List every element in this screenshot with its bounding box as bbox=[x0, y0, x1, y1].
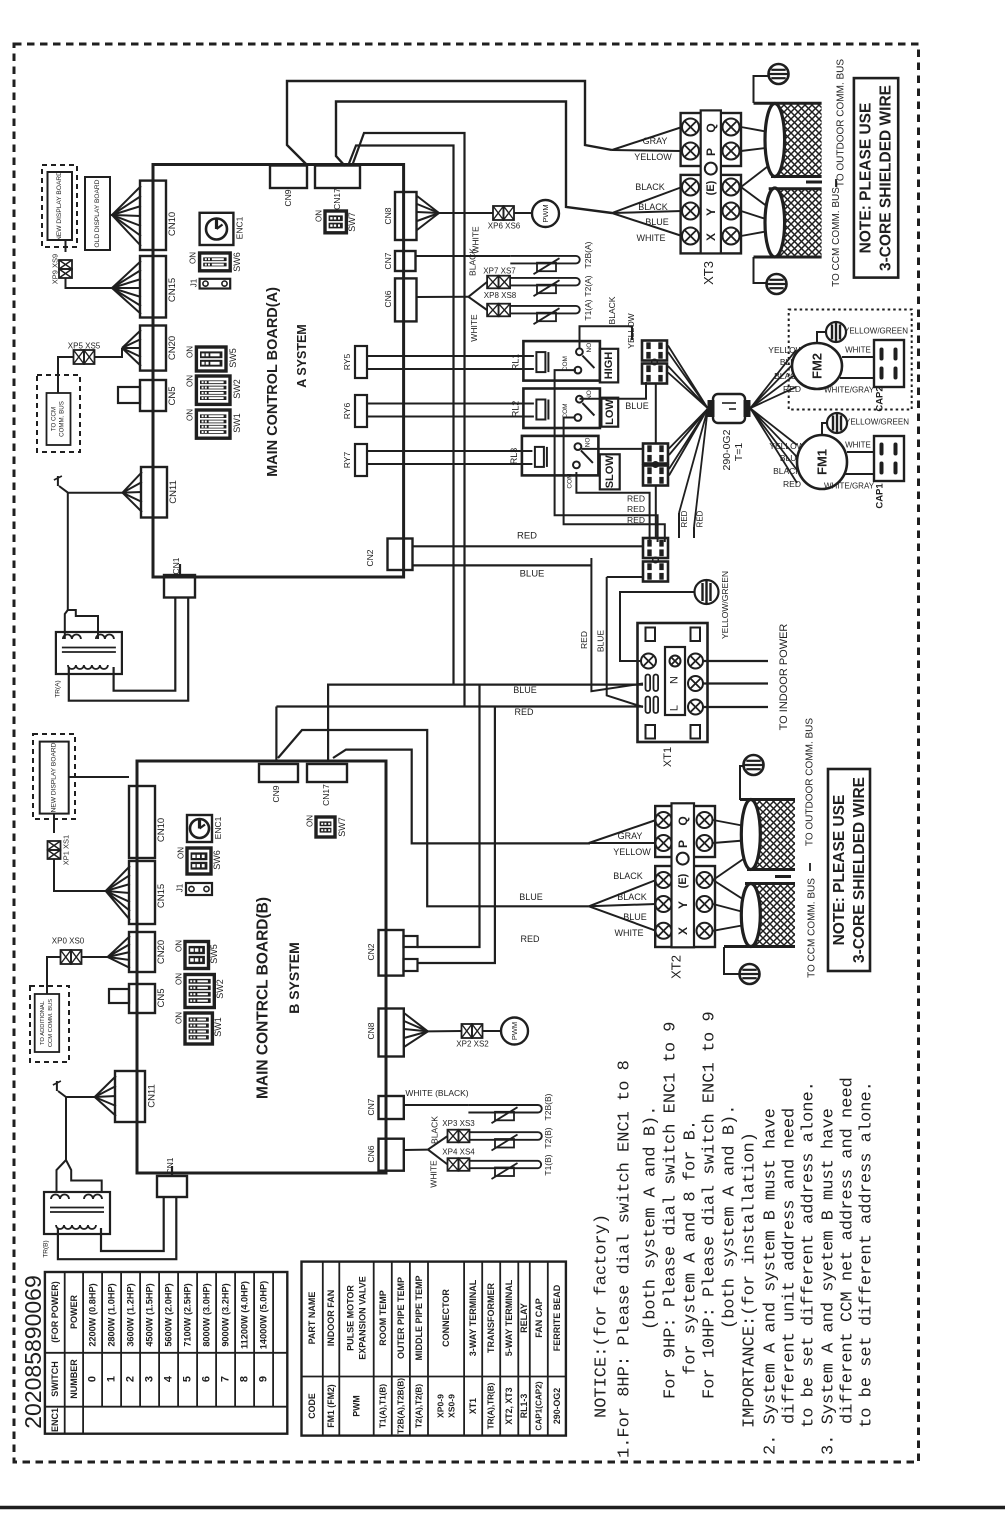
svg-text:MAIN CONTROL BOARD(A): MAIN CONTROL BOARD(A) bbox=[265, 287, 281, 477]
svg-text:4500W (1.5HP): 4500W (1.5HP) bbox=[145, 1283, 155, 1346]
svg-text:0: 0 bbox=[87, 1376, 99, 1382]
svg-text:RY6: RY6 bbox=[342, 403, 352, 420]
svg-text:ENC1: ENC1 bbox=[213, 816, 223, 839]
svg-text:COM: COM bbox=[562, 356, 569, 371]
svg-text:X: X bbox=[704, 233, 718, 241]
svg-text:POWER: POWER bbox=[69, 1295, 79, 1330]
svg-text:SW5: SW5 bbox=[228, 348, 238, 368]
connector pair P1 (fan speed) bbox=[642, 341, 667, 361]
svg-text:For 10HP: Please dial switch E: For 10HP: Please dial switch ENC1 to 9 bbox=[701, 1011, 720, 1399]
svg-text:290-OG2: 290-OG2 bbox=[552, 1388, 562, 1424]
svg-text:BLUE: BLUE bbox=[513, 685, 537, 695]
svg-text:XT2, XT3: XT2, XT3 bbox=[504, 1387, 514, 1424]
wire XP6 to PWM bbox=[514, 212, 532, 214]
wires RY6 to RL2 coil bbox=[367, 403, 534, 405]
XT' small center screw bbox=[670, 656, 681, 667]
fan motor FM1 bbox=[797, 435, 847, 489]
svg-text:CN17: CN17 bbox=[321, 784, 331, 806]
svg-text:T2(A),T2(B): T2(A),T2(B) bbox=[414, 1384, 423, 1428]
svg-text:8000W (3.0HP): 8000W (3.0HP) bbox=[202, 1283, 212, 1346]
earth FM2 yellow/green bbox=[817, 332, 826, 344]
PWM motor (A) bbox=[532, 200, 559, 227]
XT' center column bbox=[665, 647, 685, 715]
ground lower (XT3) bbox=[754, 257, 768, 283]
XT2 terminals bbox=[656, 812, 672, 828]
svg-text:NOTE: PLEASE USE: NOTE: PLEASE USE bbox=[831, 795, 848, 946]
CN15 fan bbox=[112, 261, 141, 288]
svg-text:WHITE/GRAY: WHITE/GRAY bbox=[824, 386, 875, 395]
connector CN6 (A) bbox=[395, 278, 417, 321]
svg-text:TO CCM: TO CCM bbox=[51, 407, 58, 431]
svg-text:MIDDLE PIPE TEMP: MIDDLE PIPE TEMP bbox=[414, 1275, 424, 1360]
XT' fuse slots bbox=[646, 675, 651, 692]
svg-text:BLACK: BLACK bbox=[607, 296, 617, 324]
svg-text:YELLOW: YELLOW bbox=[634, 152, 672, 162]
cable separator mark bbox=[806, 181, 822, 184]
ground upper (XT3) bbox=[754, 76, 770, 103]
svg-text:NOTE: PLEASE USE: NOTE: PLEASE USE bbox=[858, 103, 875, 254]
svg-text:COMM. BUS: COMM. BUS bbox=[59, 401, 66, 437]
svg-text:CN2: CN2 bbox=[366, 943, 376, 960]
DIP switch SW7 (B) bbox=[316, 817, 335, 837]
connector CN7 (A) bbox=[395, 251, 416, 271]
XT2 cable ellipse upper bbox=[741, 800, 760, 870]
svg-text:CN15: CN15 bbox=[156, 884, 167, 908]
XT2 cable ellipse lower bbox=[741, 884, 760, 947]
connector CN20 (B) bbox=[129, 932, 155, 972]
DIP switch SW6 (B) bbox=[187, 848, 211, 874]
main control board A outline bbox=[153, 165, 404, 578]
wire RL2 NO to P1 lower bbox=[580, 382, 647, 399]
svg-text:ON: ON bbox=[315, 210, 324, 222]
wire red down to XT' N bbox=[591, 558, 643, 691]
svg-text:YELLOW/GREEN: YELLOW/GREEN bbox=[845, 418, 909, 427]
main control board B outline bbox=[137, 761, 386, 1173]
T2(A) probe bbox=[510, 278, 580, 286]
svg-text:to be set different address al: to be set different address alone. bbox=[858, 1081, 877, 1428]
svg-text:TRANSFORMER: TRANSFORMER bbox=[486, 1283, 496, 1353]
svg-text:SW1: SW1 bbox=[213, 1017, 223, 1037]
ferrite right bundle to FM1 bbox=[751, 409, 798, 446]
svg-text:NEW DISPLAY BOARD: NEW DISPLAY BOARD bbox=[51, 742, 58, 812]
CN6A fork to XP7/XP8 bbox=[417, 296, 469, 298]
XT3 lower strip bbox=[681, 175, 741, 254]
svg-text:T2B(A): T2B(A) bbox=[583, 241, 593, 268]
svg-text:J1: J1 bbox=[176, 883, 185, 892]
ferrite bead 290-0G2 bbox=[713, 394, 745, 423]
svg-text:7: 7 bbox=[220, 1376, 232, 1382]
shielded cable hatch lower bbox=[775, 189, 822, 257]
CN15B fan bbox=[106, 866, 130, 891]
speed label HIGH bbox=[600, 349, 618, 383]
svg-text:SW2: SW2 bbox=[232, 379, 242, 399]
svg-text:3600W (1.2HP): 3600W (1.2HP) bbox=[126, 1283, 136, 1346]
XT2 cable separator bbox=[775, 875, 791, 878]
XT2 shielded cable hatch lower bbox=[751, 884, 795, 947]
svg-text:P: P bbox=[676, 840, 690, 848]
svg-text:290-0G2: 290-0G2 bbox=[721, 429, 733, 470]
svg-text:WHITE (BLACK): WHITE (BLACK) bbox=[405, 1088, 468, 1098]
svg-text:ON: ON bbox=[186, 409, 195, 421]
svg-text:XT1: XT1 bbox=[468, 1398, 478, 1414]
svg-text:SW7: SW7 bbox=[347, 212, 357, 232]
connector CN8 (B) bbox=[379, 1009, 404, 1057]
svg-text:Q: Q bbox=[704, 123, 718, 132]
svg-text:SW2: SW2 bbox=[215, 979, 225, 999]
connector CN9 (A) bbox=[270, 166, 307, 189]
DIP switch SW1 (B) bbox=[185, 1013, 212, 1044]
XT2 right wires bbox=[713, 820, 750, 827]
svg-text:CAP1: CAP1 bbox=[875, 483, 886, 509]
new display board dashed (B) bbox=[33, 734, 75, 819]
wire B CN9 diag to XT2 lower apex bbox=[278, 730, 589, 906]
svg-text:CN11: CN11 bbox=[147, 1084, 158, 1108]
red verticals P3 to ferrite bbox=[678, 513, 680, 538]
svg-text:MAIN CONTRCL BOARD(B): MAIN CONTRCL BOARD(B) bbox=[255, 897, 272, 1099]
rotary encoder ENC1 (A) bbox=[200, 213, 234, 245]
svg-text:SW1: SW1 bbox=[232, 413, 242, 433]
XT' mounting holes bbox=[646, 628, 656, 642]
svg-text:RED: RED bbox=[783, 384, 801, 394]
wire CN2B tab2 up to XT' L bbox=[417, 707, 495, 963]
svg-text:ON: ON bbox=[175, 973, 184, 985]
DIP switch SW5 (B) bbox=[185, 942, 209, 969]
svg-text:CN15: CN15 bbox=[167, 278, 178, 302]
TR(A) secondary wires to CN1A bbox=[114, 598, 176, 691]
svg-text:J1: J1 bbox=[190, 278, 199, 287]
svg-text:RED: RED bbox=[579, 631, 589, 649]
svg-text:BLUE: BLUE bbox=[519, 892, 543, 902]
connector CN10 (B) bbox=[129, 786, 155, 858]
svg-text:RED: RED bbox=[783, 479, 801, 489]
CN20 fan bbox=[122, 330, 141, 348]
svg-text:CN9: CN9 bbox=[271, 785, 281, 802]
svg-text:SW5: SW5 bbox=[209, 944, 219, 964]
svg-text:SW7: SW7 bbox=[337, 817, 347, 837]
CN1B stub bbox=[171, 1166, 173, 1176]
svg-text:(both system A and B).: (both system A and B). bbox=[721, 1105, 740, 1329]
svg-text:X: X bbox=[676, 927, 690, 935]
transformer TR(A) bbox=[56, 632, 122, 674]
dotted box FM2/CAP2 bbox=[789, 310, 912, 410]
svg-text:COM: COM bbox=[567, 473, 574, 488]
svg-text:XP1 XS1: XP1 XS1 bbox=[62, 835, 71, 865]
svg-text:XP7 XS7: XP7 XS7 bbox=[483, 267, 516, 276]
svg-text:BLACK: BLACK bbox=[430, 1116, 440, 1144]
svg-text:OLD DISPLAY BOARD: OLD DISPLAY BOARD bbox=[94, 179, 101, 247]
svg-text:HIGH: HIGH bbox=[603, 352, 615, 380]
svg-text:XS0-9: XS0-9 bbox=[447, 1394, 457, 1418]
svg-text:WHITE: WHITE bbox=[845, 346, 871, 355]
XT3 ring bbox=[705, 163, 717, 175]
svg-text:T2(A): T2(A) bbox=[583, 275, 593, 296]
svg-text:FM2: FM2 bbox=[810, 353, 825, 379]
svg-text:CONNECTOR: CONNECTOR bbox=[441, 1289, 451, 1347]
svg-text:6: 6 bbox=[201, 1376, 213, 1382]
svg-text:3-CORE SHIELDED WIRE: 3-CORE SHIELDED WIRE bbox=[851, 777, 868, 963]
svg-text:RED: RED bbox=[680, 510, 689, 527]
speed label LOW bbox=[601, 398, 618, 427]
svg-text:ON: ON bbox=[186, 375, 195, 387]
svg-text:CN8: CN8 bbox=[383, 207, 393, 224]
svg-text:CN20: CN20 bbox=[156, 940, 167, 964]
XT2 shielded cable hatch upper bbox=[751, 800, 795, 870]
XT2 ground lower bbox=[724, 947, 740, 974]
svg-text:different unit address and nee: different unit address and need bbox=[781, 1108, 800, 1424]
svg-text:ENC1: ENC1 bbox=[235, 216, 245, 239]
TR(B) primary wires bbox=[58, 1091, 95, 1097]
svg-text:(both system A and B).: (both system A and B). bbox=[642, 1106, 661, 1330]
XT2 ground upper bbox=[740, 766, 744, 800]
svg-text:T2B(B): T2B(B) bbox=[543, 1093, 553, 1120]
svg-text:COM: COM bbox=[562, 403, 569, 418]
svg-text:NEW DISPLAY BOARD: NEW DISPLAY BOARD bbox=[56, 171, 63, 241]
svg-text:T=1: T=1 bbox=[733, 443, 745, 462]
CN11B fan bbox=[95, 1076, 116, 1097]
bottom page rule bbox=[0, 1506, 1005, 1509]
svg-text:XP2 XS2: XP2 XS2 bbox=[456, 1040, 489, 1049]
svg-text:7100W (2.5HP): 7100W (2.5HP) bbox=[183, 1283, 193, 1346]
svg-text:CAP1(CAP2): CAP1(CAP2) bbox=[534, 1381, 543, 1430]
wire P2 to P3 bbox=[655, 486, 657, 538]
svg-text:BLACK: BLACK bbox=[617, 892, 647, 902]
svg-text:(E): (E) bbox=[705, 180, 717, 195]
svg-text:TO CCM COMM. BUS: TO CCM COMM. BUS bbox=[831, 187, 842, 287]
wires RY7 to RL3 coil bbox=[367, 450, 532, 452]
relay COM bus wires to P3 (red) bbox=[555, 370, 658, 542]
svg-text:2200W (0.8HP): 2200W (0.8HP) bbox=[88, 1283, 98, 1346]
svg-text:WHITE: WHITE bbox=[637, 233, 666, 243]
connector CN2 (A) bbox=[388, 539, 413, 571]
jumper J1 (B) bbox=[186, 883, 212, 895]
svg-text:CN7: CN7 bbox=[366, 1098, 376, 1115]
DIP switch SW5 (A) bbox=[196, 347, 226, 371]
earth above XT' yellow/green bbox=[620, 592, 695, 661]
svg-text:BLACK: BLACK bbox=[613, 871, 643, 881]
svg-text:CN10: CN10 bbox=[167, 212, 178, 236]
svg-text:CN9: CN9 bbox=[283, 189, 293, 206]
to additional ccm dashed (B) bbox=[30, 986, 69, 1062]
connector CN5 (A) bbox=[140, 380, 166, 411]
XT2 upper strip bbox=[655, 806, 715, 857]
svg-text:Q: Q bbox=[676, 816, 690, 825]
wire CN7B to T2B(B) bbox=[404, 1104, 468, 1106]
svg-text:SLOW: SLOW bbox=[604, 455, 616, 489]
svg-text:2800W (1.0HP): 2800W (1.0HP) bbox=[107, 1283, 117, 1346]
svg-text:TR(A): TR(A) bbox=[54, 680, 61, 697]
svg-text:NOTICE:(for factory): NOTICE:(for factory) bbox=[593, 1214, 612, 1418]
svg-text:RED: RED bbox=[520, 934, 540, 944]
XT3 left wire bundle upper bbox=[612, 127, 682, 150]
wire CN17A down-wire 1 (joins XT' L feed) bbox=[352, 133, 465, 707]
svg-text:Y: Y bbox=[676, 901, 690, 909]
relay RY6 on board bbox=[355, 395, 367, 427]
earth FM1 yellow/green bbox=[822, 423, 827, 435]
svg-text:EXPANSION VALVE: EXPANSION VALVE bbox=[358, 1276, 368, 1360]
connector CN15 (A) bbox=[140, 256, 166, 318]
relay RL3 bbox=[522, 436, 599, 476]
connector CN17 (A) bbox=[315, 166, 360, 189]
XT' right wires to indoor power bbox=[703, 660, 768, 662]
svg-text:PWM: PWM bbox=[510, 1022, 519, 1040]
svg-text:5-WAY TERMINAL: 5-WAY TERMINAL bbox=[504, 1279, 514, 1356]
wire CN2B tab1 up to XT' N bbox=[417, 685, 480, 947]
svg-text:PWM: PWM bbox=[541, 204, 550, 222]
svg-text:For 9HP: Please dial switch EN: For 9HP: Please dial switch ENC1 to 9 bbox=[662, 1022, 681, 1399]
svg-text:N: N bbox=[669, 676, 681, 684]
svg-text:CN2: CN2 bbox=[365, 549, 375, 566]
connector CN8 (A) bbox=[395, 192, 417, 240]
svg-text:5600W (2.0HP): 5600W (2.0HP) bbox=[164, 1283, 174, 1346]
wire CN2A red bbox=[413, 545, 644, 547]
wire CN17A to XT3 lower bundle bbox=[336, 102, 612, 214]
connector CN5 (B) bbox=[129, 984, 155, 1013]
relay RL2 bbox=[523, 389, 600, 429]
connector pair P3 bbox=[643, 538, 668, 558]
note box 1 bbox=[854, 78, 898, 278]
svg-text:Y: Y bbox=[704, 208, 718, 216]
svg-text:202085890069: 202085890069 bbox=[20, 1275, 46, 1429]
DIP switch SW1 (A) bbox=[196, 410, 230, 438]
svg-text:RELAY: RELAY bbox=[519, 1303, 529, 1333]
svg-text:TO INDOOR POWER: TO INDOOR POWER bbox=[778, 624, 790, 731]
XT2 lower strip bbox=[655, 866, 715, 947]
svg-text:for system A and 8 for B.: for system A and 8 for B. bbox=[682, 1120, 701, 1375]
note box 2 bbox=[828, 769, 870, 971]
svg-text:OUTER PIPE TEMP: OUTER PIPE TEMP bbox=[396, 1277, 406, 1359]
svg-text:ON: ON bbox=[189, 252, 198, 264]
wire XP5 to CN20 fan bbox=[58, 357, 74, 393]
connector pair P2 bbox=[643, 444, 668, 464]
svg-text:CODE: CODE bbox=[307, 1393, 317, 1419]
DIP switch SW7 (A) bbox=[325, 211, 346, 233]
transformer TR(B) bbox=[44, 1192, 110, 1234]
svg-text:XT3: XT3 bbox=[701, 261, 716, 285]
svg-text:ENC1: ENC1 bbox=[50, 1408, 60, 1432]
svg-text:CN10: CN10 bbox=[156, 818, 167, 842]
CN8A fan bbox=[417, 196, 439, 213]
svg-text:CN20: CN20 bbox=[167, 336, 178, 360]
svg-text:BLACK: BLACK bbox=[635, 182, 665, 192]
svg-text:TO OUTDOOR COMM. BUS: TO OUTDOOR COMM. BUS bbox=[836, 59, 847, 187]
wire XP9 to CN15 fan bbox=[66, 278, 113, 288]
wire B CN9 to XT' L bbox=[275, 707, 277, 762]
XT2 left bundle upper bbox=[589, 820, 656, 843]
svg-text:NUMBER: NUMBER bbox=[69, 1359, 79, 1399]
svg-text:RED: RED bbox=[514, 707, 534, 717]
svg-text:WHITE: WHITE bbox=[845, 441, 871, 450]
svg-text:IMPORTANCE:(for installation): IMPORTANCE:(for installation) bbox=[741, 1132, 760, 1428]
svg-text:A SYSTEM: A SYSTEM bbox=[295, 324, 309, 387]
svg-text:ON: ON bbox=[177, 847, 186, 859]
connector CN20 (A) bbox=[140, 326, 166, 371]
svg-text:RY5: RY5 bbox=[342, 354, 352, 371]
svg-text:RED: RED bbox=[627, 504, 645, 514]
svg-text:14000W (5.0HP): 14000W (5.0HP) bbox=[259, 1281, 269, 1349]
rotary encoder ENC1 (B) bbox=[187, 815, 212, 842]
svg-text:T1(B): T1(B) bbox=[543, 1154, 553, 1175]
svg-text:XP0-9: XP0-9 bbox=[436, 1394, 446, 1418]
parts code table bbox=[302, 1262, 566, 1436]
svg-text:RED: RED bbox=[627, 494, 645, 504]
svg-text:CN5: CN5 bbox=[167, 386, 178, 405]
connector CN2 (B) bbox=[379, 930, 404, 976]
svg-text:T1(A),T1(B): T1(A),T1(B) bbox=[378, 1384, 387, 1428]
connector XP2 XS2 bbox=[462, 1024, 473, 1038]
wire CN7A to T2B(A) bbox=[416, 255, 510, 257]
svg-text:PULSE MOTOR: PULSE MOTOR bbox=[346, 1285, 356, 1351]
new display board dashed box (A) bbox=[42, 165, 77, 247]
T2(B) probe bbox=[470, 1132, 542, 1140]
svg-text:WHITE: WHITE bbox=[429, 1160, 439, 1188]
svg-text:YELLOW/GREEN: YELLOW/GREEN bbox=[720, 571, 730, 639]
svg-text:PWM: PWM bbox=[352, 1395, 362, 1417]
svg-text:NO: NO bbox=[584, 438, 591, 448]
svg-text:1: 1 bbox=[106, 1376, 118, 1382]
connector CN11 (B) bbox=[115, 1071, 145, 1122]
svg-text:TR(B): TR(B) bbox=[43, 1240, 50, 1257]
XT2 left bundle lower bbox=[589, 880, 656, 906]
svg-text:5: 5 bbox=[182, 1376, 194, 1382]
svg-text:XP8 XS8: XP8 XS8 bbox=[484, 291, 517, 300]
new display board (B) bbox=[40, 742, 69, 814]
relay RL1 bbox=[523, 341, 600, 381]
svg-text:CN6: CN6 bbox=[383, 290, 393, 307]
svg-text:ON: ON bbox=[175, 940, 184, 952]
wire CN9A to XT3 upper bundle bbox=[287, 81, 612, 166]
svg-text:ON: ON bbox=[186, 346, 195, 358]
svg-text:T1(A): T1(A) bbox=[583, 299, 593, 320]
svg-text:LOW: LOW bbox=[604, 399, 616, 425]
connector CN1 (B) bbox=[157, 1176, 187, 1197]
jumper J1 (A) bbox=[200, 279, 231, 289]
svg-text:BLUE: BLUE bbox=[625, 401, 649, 411]
svg-text:ROOM TEMP: ROOM TEMP bbox=[378, 1290, 388, 1346]
CN20B fan bbox=[108, 936, 130, 957]
svg-text:SW6: SW6 bbox=[232, 252, 242, 272]
DIP switch SW6 (A) bbox=[200, 253, 231, 271]
svg-text:3. System A and syetem B must: 3. System A and syetem B must have bbox=[820, 1108, 839, 1455]
T1(A) probe bbox=[510, 306, 580, 314]
wire B CN17 to XT' N bbox=[328, 685, 643, 761]
svg-text:FM1 (FM2): FM1 (FM2) bbox=[326, 1384, 336, 1428]
ENC1 switch table bbox=[45, 1272, 287, 1434]
TR(A) primary wires bbox=[59, 486, 123, 493]
svg-text:ON: ON bbox=[306, 815, 315, 827]
wires RY5 to RL1 coil bbox=[367, 355, 534, 357]
svg-text:FERRITE BEAD: FERRITE BEAD bbox=[552, 1284, 562, 1351]
svg-text:SWITCH: SWITCH bbox=[50, 1361, 60, 1397]
svg-text:2. System A and system B must: 2. System A and system B must have bbox=[762, 1108, 781, 1455]
speed label SLOW bbox=[600, 454, 620, 489]
old display board (A) bbox=[85, 177, 110, 250]
CN8B fan bbox=[404, 1013, 428, 1031]
to ccm comm bus dashed box (A) bbox=[37, 375, 80, 452]
capacitor CAP1 bbox=[874, 436, 904, 481]
XT2 center column bbox=[672, 803, 695, 947]
svg-text:ON: ON bbox=[175, 1012, 184, 1024]
XT' terminal left top bbox=[641, 654, 656, 669]
FM1 to CAP1 wires bbox=[847, 451, 874, 453]
connector XP9 XS9 bbox=[65, 240, 67, 252]
T1(B) probe bbox=[470, 1161, 542, 1168]
svg-text:CN17: CN17 bbox=[332, 188, 342, 210]
svg-text:2: 2 bbox=[125, 1376, 137, 1382]
XT' terminals right bbox=[688, 654, 703, 669]
wire CN17A down-wire 2 (joins XT' N feed) bbox=[348, 146, 454, 685]
svg-text:T2(B): T2(B) bbox=[543, 1127, 553, 1148]
relay RY5 on board bbox=[355, 346, 367, 378]
